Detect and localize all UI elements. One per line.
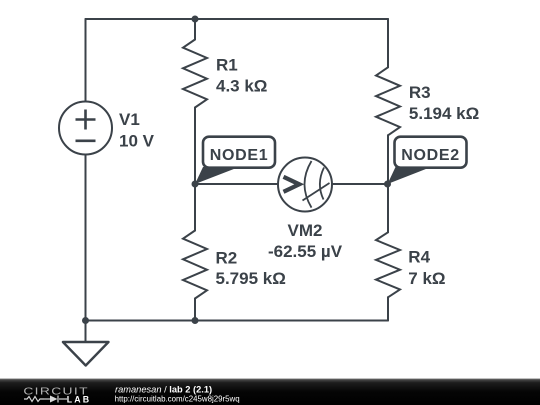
svg-text:R4: R4 [408,248,430,267]
label R1 designator [216,56,238,75]
voltage source V1 [59,102,112,155]
ground [63,342,109,366]
label VM2 value -62.55 uV [268,242,343,261]
wire right bottom [387,297,389,320]
logo CircuitLab [23,385,91,404]
resistor R2 [183,231,207,299]
wire node1 to meter [195,183,278,185]
label R3 value 5.194 kOhm [409,104,479,123]
svg-text:10 V: 10 V [119,132,155,151]
wire right top [387,19,389,67]
svg-text:4.3 kΩ: 4.3 kΩ [216,77,267,96]
junction dot bottom middle [192,317,199,324]
junction dot top [192,16,199,23]
svg-text:LAB: LAB [67,395,91,405]
wire left lower [85,155,87,321]
svg-text:VM2: VM2 [288,221,323,240]
wire middle bottom [194,299,196,321]
wire right mid [387,135,389,232]
label V1 value 10 V [119,132,155,151]
junction dot node1 [192,181,199,188]
junction dot node2 [384,181,391,188]
svg-text:ramanesan / lab 2 (2.1): ramanesan / lab 2 (2.1) [115,384,212,394]
svg-text:R3: R3 [409,83,431,102]
wire middle mid [194,108,196,231]
svg-text:5.795 kΩ: 5.795 kΩ [216,269,286,288]
wire meter to node2 [332,183,388,185]
svg-text:V1: V1 [119,110,140,129]
svg-text:-62.55 µV: -62.55 µV [268,242,343,261]
wire ground stem [85,321,87,343]
label V1 designator [119,110,140,129]
svg-text:NODE1: NODE1 [210,147,269,164]
label R4 value 7 kOhm [408,269,445,288]
svg-text:NODE2: NODE2 [401,147,460,164]
label R2 value 5.795 kOhm [216,269,286,288]
label R2 designator [216,249,238,268]
svg-text:5.194 kΩ: 5.194 kΩ [409,104,479,123]
svg-text:http://circuitlab.com/c245w8j2: http://circuitlab.com/c245w8j29r5wq [115,395,240,404]
label R4 designator [408,248,430,267]
resistor R1 [183,40,207,108]
wire top [86,18,389,20]
resistor R3 [376,67,400,135]
junction dot ground [82,317,89,324]
resistor R4 [376,232,400,297]
footer credit text [115,384,240,403]
wire left upper [85,19,87,102]
svg-text:7 kΩ: 7 kΩ [408,269,445,288]
footer bar [0,379,540,405]
svg-text:R1: R1 [216,56,238,75]
label R3 designator [409,83,431,102]
wire middle top [194,19,196,40]
voltmeter VM2 [278,158,332,212]
wire bottom [86,320,389,322]
label VM2 designator [288,221,323,240]
node NODE2 callout [388,137,467,184]
label R1 value 4.3 kOhm [216,77,267,96]
svg-text:R2: R2 [216,249,238,268]
node NODE1 callout [195,137,275,184]
